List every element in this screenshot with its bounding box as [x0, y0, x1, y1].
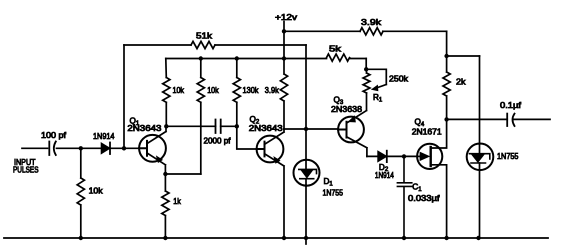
svg-text:2k: 2k: [456, 77, 466, 86]
zener 1N755 (output clamp): [467, 144, 519, 171]
potentiometer R1 250k: [363, 69, 409, 103]
transistor Q2 2N3643: [249, 115, 284, 238]
wire: Q2 collector node to Q3 base: [284, 128, 338, 130]
node: 3.9k top: [282, 56, 286, 60]
resistor 3.9k (Q2 collector load): [265, 59, 288, 130]
capacitor C1 0.033uf: [397, 156, 440, 238]
wire: Q1 collector to 2000pf: [166, 125, 237, 127]
svg-text:250k: 250k: [389, 74, 409, 83]
wire: zener to ground: [479, 170, 481, 238]
node: Q1 base / 51k junction: [122, 146, 126, 150]
node: 2k top junction: [444, 54, 448, 58]
wire: +12v stem: [283, 22, 285, 32]
node: Q4 base1 ground: [444, 236, 448, 240]
wire: top line to 3.9k: [284, 30, 447, 32]
svg-text:2000 pf: 2000 pf: [204, 137, 232, 146]
diode D2 1N914: [375, 151, 394, 180]
wire: D1 to ground rail: [305, 185, 307, 244]
node: D1 top junction: [304, 127, 308, 131]
ground rail: [4, 237, 548, 239]
wire: 5k end down to pot: [365, 59, 367, 70]
node: D1 ground: [304, 236, 308, 240]
node: zener ground: [476, 236, 480, 240]
wire: output line: [447, 118, 550, 120]
svg-text:1N755: 1N755: [497, 152, 519, 161]
wire: zener branch down: [479, 56, 481, 144]
svg-text:10k: 10k: [173, 86, 185, 95]
svg-text:+12v: +12v: [275, 13, 298, 22]
wire: 2k top to zener branch: [447, 55, 480, 57]
resistor 5k: [327, 45, 350, 62]
transistor Q1 2N3643: [127, 116, 166, 174]
svg-text:10k: 10k: [89, 186, 104, 195]
transistor Q3 2N3638: [331, 93, 367, 156]
node: C1 ground: [402, 236, 406, 240]
svg-text:PULSES: PULSES: [13, 165, 39, 174]
wire: 51k feedback line left leg: [123, 45, 125, 148]
svg-text:1N914: 1N914: [93, 132, 115, 141]
node: 1k ground: [163, 236, 167, 240]
svg-text:3.9k: 3.9k: [361, 18, 382, 27]
svg-text:1N914: 1N914: [375, 171, 394, 180]
node: Q2 emitter ground: [282, 236, 286, 240]
node: Q1 collector: [164, 124, 168, 128]
wire: emitter to 10k#2 bottom: [165, 173, 200, 175]
node: 10k input ground: [79, 236, 83, 240]
wire: bias rail: [166, 58, 366, 60]
resistor 130k: [233, 59, 259, 127]
svg-text:130k: 130k: [243, 86, 260, 95]
capacitor 100pf: [41, 131, 67, 155]
node: pot top: [364, 67, 368, 71]
node: +12v / 3.9k junction: [282, 29, 286, 33]
resistor 10k (Q1 collector load): [163, 59, 185, 127]
svg-text:2N3643: 2N3643: [127, 124, 162, 133]
resistor 3.9k (top): [360, 18, 383, 35]
resistor 1k: [162, 174, 182, 238]
svg-text:2N3638: 2N3638: [331, 105, 362, 114]
wire: down to Q2 base: [237, 126, 257, 149]
svg-text:0.033µf: 0.033µf: [408, 194, 440, 203]
node: 10k#2 top: [199, 56, 203, 60]
node: 130k top: [235, 56, 239, 60]
node: 130k bottom / Q2 base: [235, 124, 239, 128]
svg-text:51k: 51k: [196, 32, 213, 41]
capacitor 0.1uf (output): [500, 101, 522, 126]
zener D1 1N755: [294, 160, 344, 198]
resistor 10k (second): [197, 59, 219, 175]
svg-text:10k: 10k: [207, 86, 219, 95]
resistor 10k (input): [77, 148, 103, 238]
svg-text:2N1671: 2N1671: [412, 127, 442, 136]
resistor 2k: [443, 56, 466, 119]
svg-text:1k: 1k: [173, 197, 181, 206]
node: 2k bottom / output junction: [444, 117, 448, 121]
resistor 51k: [191, 32, 215, 49]
wire: +12v down to bias rail: [283, 31, 285, 58]
capacitor 2000pf: [204, 120, 232, 146]
svg-text:100 pf: 100 pf: [41, 131, 67, 140]
diode 1N914 (input): [93, 132, 115, 154]
svg-text:1N755: 1N755: [323, 188, 344, 197]
svg-text:2N3643: 2N3643: [249, 124, 284, 133]
wire: top line corner down to 2k: [446, 31, 448, 56]
svg-text:5k: 5k: [329, 45, 342, 54]
transistor Q4 2N1671 (UJT): [412, 118, 447, 238]
wire: 51k line down to D1: [305, 45, 307, 160]
node: D2 / C1 / Q4 emitter junction: [402, 154, 406, 158]
node: input/10k junction: [79, 146, 83, 150]
svg-text:0.1µf: 0.1µf: [500, 101, 522, 110]
wire: Q3 collector to D2: [367, 155, 417, 157]
wire: 51k line top: [124, 44, 306, 46]
svg-text:3.9k: 3.9k: [265, 86, 280, 95]
label INPUT PULSES: [13, 158, 39, 174]
node: Q1 emitter: [163, 172, 167, 176]
label +12v: [275, 13, 298, 22]
wire: input line to Q1 base: [22, 147, 139, 149]
